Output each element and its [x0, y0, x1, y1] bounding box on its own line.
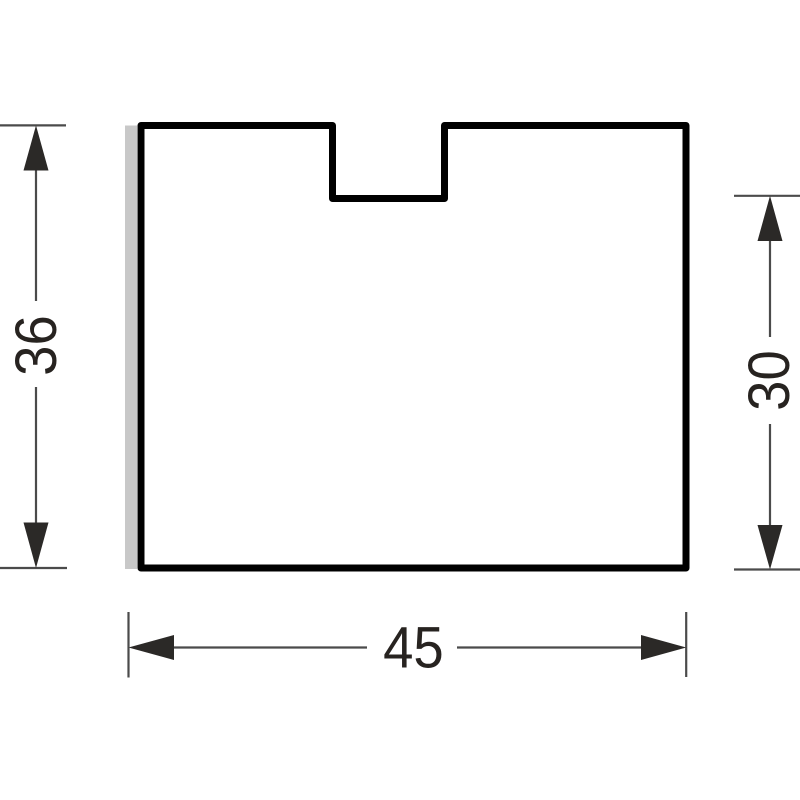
svg-text:45: 45	[383, 615, 444, 680]
extension line bottom-right vertical (for 45)	[685, 612, 687, 677]
dimension line 45 right segment	[457, 646, 643, 648]
arrowhead 45 left	[129, 635, 175, 660]
arrowhead 45 right	[641, 635, 686, 660]
dimension line 30 upper segment	[769, 241, 771, 337]
profile outline (notched rectangle)	[141, 126, 686, 569]
extension line bottom-left vertical (for 45)	[127, 612, 129, 678]
label 36	[4, 315, 69, 376]
arrowhead 36 top	[24, 125, 49, 170]
label 30	[736, 350, 800, 411]
dimension line 36 lower segment	[35, 387, 37, 524]
extension line top-right (for 30)	[734, 195, 800, 197]
svg-text:30: 30	[736, 350, 800, 411]
dimension line 45 left segment	[172, 646, 367, 648]
extension line bottom-left (for 36)	[0, 567, 67, 569]
arrowhead 30 bottom	[758, 525, 783, 570]
arrowhead 30 top	[758, 196, 783, 241]
extension line bottom-right (for 30)	[734, 568, 800, 570]
svg-text:36: 36	[4, 315, 69, 376]
arrowhead 36 bottom	[24, 523, 49, 569]
shadow (left side of profile)	[125, 126, 137, 570]
dimension line 36 upper segment	[35, 170, 37, 301]
extension line top-left (for 36)	[0, 124, 66, 126]
dimension line 30 lower segment	[769, 424, 771, 527]
label 45	[383, 615, 444, 680]
